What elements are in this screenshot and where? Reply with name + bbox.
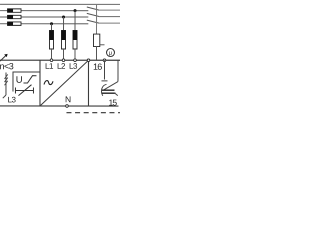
node junction diag xyxy=(87,59,90,62)
svg-text:L3: L3 xyxy=(69,62,78,71)
fuse F5 vertical on L2 drop xyxy=(61,31,65,60)
buzzer tail tick xyxy=(114,93,117,96)
bus line 2 (L3 feed) xyxy=(0,10,88,12)
terminal L1 xyxy=(50,59,53,62)
svg-text:16: 16 xyxy=(93,62,102,72)
fuse F1 on line 2 xyxy=(8,9,22,13)
node tap L1 on line 4 xyxy=(50,22,53,30)
svg-text:n<3: n<3 xyxy=(0,61,14,71)
AC/DC converter diagonal xyxy=(40,61,88,106)
bus line 3 (L2 feed) xyxy=(0,16,88,18)
buzzer bar 1 xyxy=(102,89,114,91)
svg-text:U: U xyxy=(16,75,23,86)
contact 18 lead xyxy=(117,60,119,81)
fuse F7 on N tap xyxy=(94,34,105,60)
fuse F4 vertical on L1 drop xyxy=(49,30,53,59)
svg-text:L3: L3 xyxy=(7,95,16,104)
switch Q1 pole 1 blade xyxy=(87,7,120,10)
svg-text:μ: μ xyxy=(109,51,113,57)
svg-text:L1: L1 xyxy=(45,62,54,71)
svg-text:15: 15 xyxy=(108,98,117,108)
dashed neutral link xyxy=(66,112,119,114)
contact 16 lead xyxy=(101,60,107,81)
function box U< xyxy=(13,72,40,92)
terminal 16 node xyxy=(103,59,106,62)
wire N tap vertical xyxy=(96,4,98,34)
fuse F6 vertical on L3 drop xyxy=(73,31,77,60)
fuse F2 on line 3 xyxy=(8,15,22,19)
node tap L3 on line 2 xyxy=(74,9,77,30)
AC tilde symbol xyxy=(44,81,53,85)
svg-text:L2: L2 xyxy=(57,62,66,71)
svg-text:N: N xyxy=(65,94,71,104)
relay box U1 right edge xyxy=(87,60,89,106)
relay box U1 bottom edge xyxy=(0,105,118,107)
fuse F3 on line 4 xyxy=(8,22,22,26)
ramp symbol xyxy=(23,76,36,83)
switch Q1 pole 3 blade xyxy=(87,20,120,23)
arrow continuation top-left xyxy=(0,54,8,61)
wire measuring input with 3-phase slashes xyxy=(3,72,8,98)
terminal L3 xyxy=(74,59,77,62)
buzzer bar 2 xyxy=(101,92,115,94)
terminal N xyxy=(66,105,69,108)
bus line 4 (L1 feed) xyxy=(0,23,88,25)
bus line 1 (N) xyxy=(0,3,120,5)
setpoint bar symbol xyxy=(15,85,33,96)
lamp P1 xyxy=(107,49,115,57)
buzzer arc xyxy=(101,84,106,96)
contact blade xyxy=(103,82,118,91)
node tap L2 on line 3 xyxy=(62,16,65,31)
divider wall xyxy=(39,60,41,106)
switch Q1 pole 2 blade xyxy=(87,13,120,16)
terminal L2 xyxy=(62,59,65,62)
relay box U1 top edge xyxy=(0,59,120,61)
